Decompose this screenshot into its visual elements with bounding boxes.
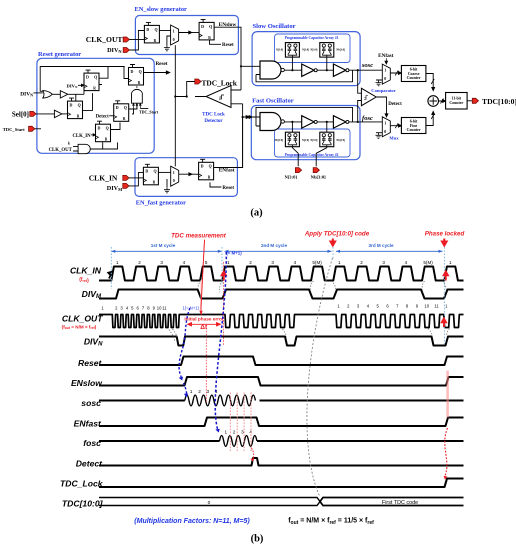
svg-text:2: 2 bbox=[198, 389, 201, 394]
Reset waveform bbox=[99, 357, 464, 366]
svg-text:1: 1 bbox=[190, 389, 193, 394]
svg-text:Programmable Capacitor Array #: Programmable Capacitor Array #1 bbox=[285, 36, 339, 40]
DIV_N waveform bbox=[99, 337, 464, 346]
inverter 1 fast bbox=[302, 116, 318, 128]
ground at EN_fast mux bbox=[166, 179, 168, 187]
Programmable Capacitor Array #2 inner box bbox=[275, 129, 351, 157]
svg-text:Mux: Mux bbox=[389, 136, 399, 141]
svg-text:5: 5 bbox=[205, 260, 208, 265]
svg-text:(fout = N/M × fref): (fout = N/M × fref) bbox=[62, 325, 97, 331]
detector input wires bbox=[231, 90, 243, 104]
adder bbox=[426, 74, 435, 126]
svg-text:Nb[3:0]: Nb[3:0] bbox=[336, 49, 345, 52]
svg-text:ENfast: ENfast bbox=[378, 53, 394, 59]
wire mux to FF2 bbox=[179, 31, 192, 34]
sosc waveform bbox=[99, 400, 185, 402]
svg-text:1st M cycle: 1st M cycle bbox=[151, 243, 176, 248]
svg-text:2: 2 bbox=[233, 430, 236, 435]
cap array #1b bbox=[320, 43, 334, 58]
svg-text:4: 4 bbox=[294, 260, 297, 265]
svg-text:Detect: Detect bbox=[96, 115, 109, 120]
svg-text:2: 2 bbox=[138, 260, 141, 265]
svg-text:3: 3 bbox=[382, 260, 385, 265]
svg-text:1: 1 bbox=[338, 260, 341, 265]
svg-text:TDC_Lock: TDC_Lock bbox=[202, 79, 238, 88]
svg-text:DIVN: DIVN bbox=[20, 91, 33, 97]
cap array #2a bbox=[285, 132, 299, 147]
svg-text:DIVM: DIVM bbox=[107, 185, 123, 192]
flip-flop U2 EN_slow bbox=[199, 19, 214, 40]
blue curve to ENslow bbox=[179, 308, 190, 377]
fosc waveform bbox=[99, 440, 220, 442]
wire FF1 Q to mux bbox=[159, 30, 170, 32]
svg-text:Comparator: Comparator bbox=[371, 88, 396, 93]
6-bit Fine Counter bbox=[401, 118, 426, 134]
svg-text:4: 4 bbox=[183, 260, 186, 265]
initial phase error annotation bbox=[223, 262, 225, 345]
N[3:0] input bbox=[292, 147, 298, 167]
guide verticals bbox=[110, 247, 112, 289]
Reset output bbox=[144, 71, 170, 74]
inverter 2 slow bbox=[333, 64, 349, 76]
EN_slow generator block bbox=[135, 16, 238, 55]
svg-text:11: 11 bbox=[162, 306, 167, 311]
svg-text:Reset: Reset bbox=[78, 358, 103, 368]
svg-text:4: 4 bbox=[405, 260, 408, 265]
svg-text:CLK_OUT: CLK_OUT bbox=[49, 148, 73, 153]
svg-text:(Multiplication Factors: N=11,: (Multiplication Factors: N=11, M=5) bbox=[134, 518, 250, 525]
svg-text:3: 3 bbox=[271, 260, 274, 265]
mux select line down bbox=[174, 45, 176, 166]
Fast Oscillator block bbox=[251, 106, 360, 160]
svg-text:11-bit: 11-bit bbox=[452, 96, 462, 100]
feedback fast bbox=[256, 107, 353, 126]
wire mux to coarse counter bbox=[391, 72, 402, 75]
svg-text:Counter: Counter bbox=[407, 76, 421, 80]
red curve fosc to Detect bbox=[252, 448, 254, 459]
TDC_Lock waveform bbox=[99, 479, 464, 488]
svg-text:5(M): 5(M) bbox=[312, 260, 322, 265]
svg-text:Slow Oscillator: Slow Oscillator bbox=[253, 23, 296, 30]
lock red bar bbox=[446, 371, 449, 418]
svg-text:N[3:0]: N[3:0] bbox=[284, 175, 297, 180]
svg-text:N[3:0]: N[3:0] bbox=[302, 139, 309, 142]
svg-text:Counter: Counter bbox=[407, 128, 421, 132]
svg-text:(fref): (fref) bbox=[79, 277, 89, 284]
svg-text:N[3:0]: N[3:0] bbox=[276, 49, 283, 52]
TDC_Lock output marker bbox=[195, 79, 201, 84]
AND gate (4-input) below Reset FF bbox=[132, 89, 143, 103]
misc inner wires bbox=[83, 85, 103, 111]
mux EN_fast bbox=[171, 166, 179, 186]
EN_fast generator block bbox=[135, 158, 237, 197]
svg-text:TDC measurement: TDC measurement bbox=[171, 233, 227, 240]
svg-text:CLK_IN: CLK_IN bbox=[72, 134, 91, 139]
svg-text:Δt: Δt bbox=[200, 324, 208, 331]
sosc to comparator wire bbox=[358, 70, 362, 122]
blue curve to sosc bbox=[184, 383, 187, 394]
svg-text:3rd M cycle: 3rd M cycle bbox=[368, 243, 393, 248]
svg-text:1: 1 bbox=[116, 260, 119, 265]
Detect waveform bbox=[99, 458, 464, 466]
flip-flop mid-left bbox=[54, 110, 62, 117]
M cycle arrows bbox=[111, 250, 222, 252]
Reset generator block bbox=[37, 58, 154, 153]
svg-text:11: 11 bbox=[434, 304, 439, 309]
svg-text:1: 1 bbox=[449, 260, 452, 265]
vertical EN wires to oscillators bbox=[238, 27, 252, 167]
svg-text:1(= N+1): 1(= N+1) bbox=[182, 306, 199, 311]
svg-text:Nb[3:0]: Nb[3:0] bbox=[311, 175, 327, 180]
svg-text:TDC_Start: TDC_Start bbox=[139, 110, 159, 115]
wire mux to fine counter bbox=[391, 124, 402, 127]
Detect node bbox=[376, 97, 388, 117]
ENfast waveform bbox=[99, 418, 464, 427]
Nb[3:0] input bbox=[316, 147, 327, 167]
svg-text:CLK_IN: CLK_IN bbox=[70, 266, 102, 276]
wire adder to 11-bit counter bbox=[439, 100, 446, 103]
mux after fosc bbox=[382, 117, 390, 137]
NAND fast osc bbox=[260, 113, 284, 131]
DIV_M waveform bbox=[99, 290, 464, 299]
svg-text:1: 1 bbox=[225, 430, 228, 435]
chain wires slow bbox=[284, 69, 382, 71]
blue curve to fosc bbox=[215, 252, 226, 429]
svg-text:fosc: fosc bbox=[83, 438, 101, 448]
OR gate bbox=[43, 91, 53, 98]
mux EN_slow bbox=[171, 25, 179, 45]
svg-text:DIVN: DIVN bbox=[107, 47, 122, 54]
svg-text:fosc: fosc bbox=[362, 115, 373, 122]
TDC[10:0] bus bbox=[99, 498, 320, 506]
NAND slow osc bbox=[260, 61, 284, 79]
inverter 2 fast bbox=[333, 116, 349, 128]
inverter 1 slow bbox=[302, 64, 318, 76]
svg-text:(b): (b) bbox=[251, 534, 264, 545]
buffer after OR bbox=[52, 93, 60, 95]
svg-text:Apply TDC[10:0] code: Apply TDC[10:0] code bbox=[304, 231, 370, 238]
svg-text:sosc: sosc bbox=[81, 398, 101, 408]
TDC[10:0] output bbox=[467, 100, 472, 102]
svg-text:N[3:0]: N[3:0] bbox=[302, 49, 309, 52]
svg-text:N[3:0]: N[3:0] bbox=[310, 49, 317, 52]
svg-text:Reset: Reset bbox=[222, 186, 234, 191]
svg-text:Programmable Capacitor Array #: Programmable Capacitor Array #2 bbox=[285, 153, 339, 157]
svg-text:0: 0 bbox=[208, 500, 211, 506]
flip-flop U1 EN_fast bbox=[143, 164, 158, 185]
svg-text:5(M): 5(M) bbox=[423, 260, 433, 265]
svg-text:CLK_IN: CLK_IN bbox=[89, 174, 118, 183]
svg-text:Reset generator: Reset generator bbox=[38, 51, 81, 58]
svg-text:N[3:0]: N[3:0] bbox=[310, 139, 317, 142]
svg-text:Nb[3:0]: Nb[3:0] bbox=[336, 139, 345, 142]
flip-flop U2 EN_fast bbox=[199, 159, 214, 180]
svg-text:Sel[0]: Sel[0] bbox=[12, 111, 29, 119]
feedback wire left/top bbox=[40, 67, 125, 92]
11-bit Counter bbox=[446, 93, 468, 110]
svg-text:Counter: Counter bbox=[449, 101, 463, 105]
svg-text:2nd M cycle: 2nd M cycle bbox=[261, 243, 287, 248]
svg-text:2: 2 bbox=[360, 260, 363, 265]
svg-text:CLK_OUT: CLK_OUT bbox=[62, 314, 103, 324]
comparator U4 bbox=[361, 88, 376, 105]
svg-text:(= M+1): (= M+1) bbox=[226, 251, 242, 256]
svg-text:TDC Lock: TDC Lock bbox=[202, 113, 225, 118]
ENslow waveform bbox=[99, 377, 464, 386]
CLK_IN waveform bbox=[99, 267, 464, 281]
feedback slow bbox=[256, 70, 353, 82]
svg-text:Reset: Reset bbox=[222, 43, 234, 48]
svg-text:Detect: Detect bbox=[388, 102, 402, 107]
svg-text:First TDC code: First TDC code bbox=[382, 500, 418, 506]
svg-text:Phase locked: Phase locked bbox=[425, 231, 465, 238]
svg-text:3: 3 bbox=[160, 260, 163, 265]
svg-text:(a): (a) bbox=[250, 208, 263, 219]
wires top-mid FF to right FF bbox=[99, 67, 129, 79]
red curve to TDC_Lock rise bbox=[445, 428, 448, 476]
svg-text:ENfast: ENfast bbox=[219, 168, 235, 174]
svg-text:1: 1 bbox=[227, 260, 230, 265]
gray guide curves bbox=[198, 278, 203, 289]
ground at EN_slow mux bbox=[164, 45, 170, 51]
svg-text:Fast Oscillator: Fast Oscillator bbox=[252, 98, 294, 105]
svg-text:TDC[10:0]: TDC[10:0] bbox=[62, 498, 104, 508]
svg-text:DIVN: DIVN bbox=[67, 83, 78, 89]
svg-text:Reset: Reset bbox=[155, 61, 167, 67]
flip-flop U1 EN_slow bbox=[144, 22, 159, 43]
svg-text:EN_fast generator: EN_fast generator bbox=[136, 200, 186, 207]
svg-text:TDC[10:0]: TDC[10:0] bbox=[482, 97, 516, 106]
CLK_OUT waveform bbox=[99, 315, 464, 328]
svg-text:ENslow: ENslow bbox=[71, 378, 103, 388]
svg-text:EN_slow generator: EN_slow generator bbox=[135, 6, 188, 13]
svg-text:3: 3 bbox=[207, 389, 210, 394]
svg-text:CLK_OUT: CLK_OUT bbox=[86, 35, 123, 44]
6-bit Coarse Counter bbox=[401, 66, 426, 82]
TDC lock detector comparator U3 bbox=[206, 86, 231, 108]
svg-text:TDC_Lock: TDC_Lock bbox=[60, 479, 104, 489]
cap array #2b bbox=[320, 132, 334, 147]
flip-flop top-right (Reset FF) bbox=[129, 65, 144, 86]
red edge arrows bbox=[222, 272, 226, 281]
svg-text:2: 2 bbox=[249, 260, 252, 265]
svg-text:TDC_Start: TDC_Start bbox=[3, 127, 25, 132]
red sync lines bbox=[229, 393, 231, 452]
Programmable Capacitor Array #1 inner box bbox=[275, 34, 351, 63]
svg-text:Detect: Detect bbox=[76, 459, 103, 469]
mux after sosc bbox=[382, 64, 390, 84]
wire buffer to FF taps bbox=[68, 89, 84, 101]
long gray dashed curve to TDC bus bbox=[307, 258, 333, 496]
cap array #1a bbox=[285, 43, 299, 58]
Slow Oscillator block bbox=[252, 32, 360, 86]
svg-text:Detector: Detector bbox=[204, 119, 223, 124]
svg-text:Nb[3:0]: Nb[3:0] bbox=[274, 139, 283, 142]
CLK_IN first edge arrow bbox=[108, 272, 112, 279]
svg-text:10: 10 bbox=[424, 304, 429, 309]
svg-text:ENfast: ENfast bbox=[74, 419, 102, 429]
svg-text:initial phase error: initial phase error bbox=[184, 316, 224, 321]
svg-text:sosc: sosc bbox=[361, 62, 373, 69]
